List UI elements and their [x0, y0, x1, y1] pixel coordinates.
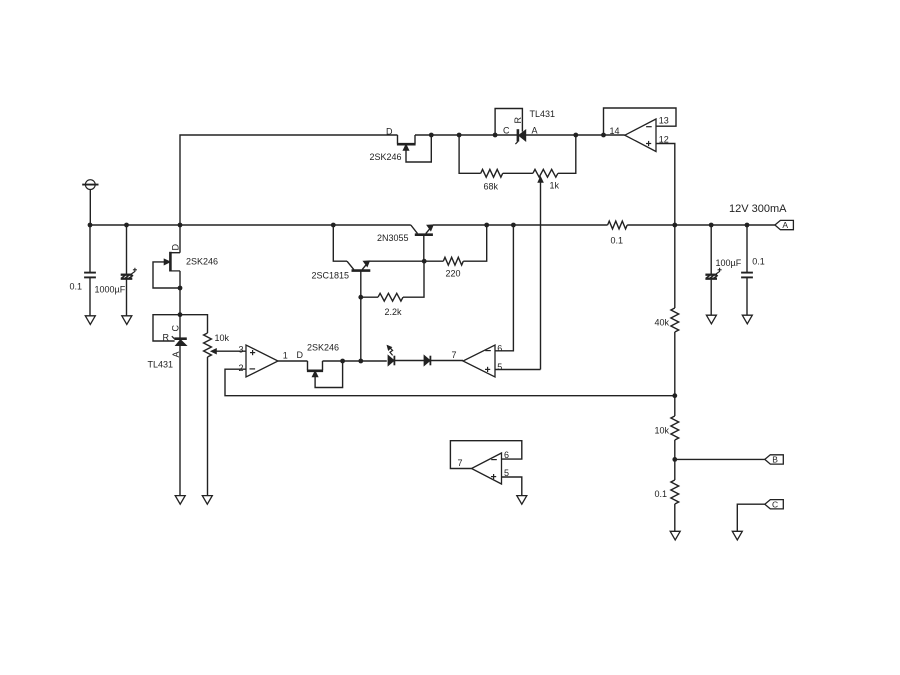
svg-text:1000µF: 1000µF	[95, 285, 126, 295]
svg-text:10k: 10k	[215, 333, 230, 343]
svg-text:7: 7	[452, 350, 457, 360]
label U1c minus	[491, 459, 497, 461]
label VR1 10k	[215, 333, 230, 343]
label U2 pin C	[170, 325, 180, 332]
wire U2 cathode	[179, 315, 181, 338]
transistor Q4 2SK246 channel bar	[307, 369, 323, 372]
label output 12V 300mA	[729, 203, 787, 215]
wire Q1 source	[170, 271, 180, 315]
label U1b pin 6	[497, 344, 502, 354]
ground U1c pin5	[517, 496, 527, 505]
svg-text:3: 3	[238, 345, 243, 355]
wire C1 bottom	[89, 277, 91, 316]
wire 40k to 10k	[674, 332, 676, 416]
wire U1b pin5 to 1k wiper	[495, 369, 541, 371]
label R 2.2k	[385, 307, 403, 317]
svg-text:2SK246: 2SK246	[370, 152, 402, 162]
wire VR1 wiper to U1a pin3	[216, 350, 247, 352]
svg-text:D: D	[171, 244, 181, 251]
node junction bus/pin6	[511, 223, 516, 228]
wire output bus right part	[627, 224, 775, 226]
wire C4 top	[746, 225, 748, 273]
svg-text:C: C	[772, 499, 778, 509]
svg-text:2SK246: 2SK246	[307, 342, 339, 352]
transistor Q4 gate arrow	[313, 371, 318, 376]
wire U1c pin6 feedback	[450, 441, 521, 469]
op-amp U1d	[625, 119, 656, 152]
led D1 indicator arrow	[387, 346, 392, 356]
op-amp U1c	[472, 453, 502, 484]
wire C3 bottom	[710, 279, 712, 316]
wire VIN to bus	[89, 190, 91, 226]
wire U1a pin2 feedback	[225, 369, 675, 396]
wire R 220 to bus	[463, 225, 486, 261]
wire C4 bottom	[746, 277, 748, 315]
resistor VR1 10k body	[204, 333, 212, 357]
svg-text:2N3055: 2N3055	[377, 233, 409, 243]
svg-text:A: A	[532, 125, 538, 135]
wire top bus segment1	[415, 134, 518, 136]
svg-text:R: R	[513, 117, 523, 124]
svg-text:2SC1815: 2SC1815	[312, 270, 350, 280]
label R 220	[446, 269, 461, 279]
wire U1c pin5 to ground	[502, 477, 522, 496]
node junction bus/40k	[672, 223, 677, 228]
svg-text:2SK246: 2SK246	[186, 256, 218, 266]
wire VR1 bottom	[207, 357, 209, 496]
label U1d pin 13	[659, 116, 669, 126]
wire B node to terminal	[675, 458, 765, 460]
svg-text:C: C	[503, 125, 510, 135]
wire Q5 gate loop	[406, 135, 431, 162]
wire C2 bottom	[126, 279, 128, 316]
label U1a pin 2	[238, 363, 243, 373]
capacitor C3 100µF	[705, 268, 721, 279]
label U2 TL431	[148, 360, 174, 370]
wire input bus	[90, 224, 411, 226]
wire R 2.2k right	[403, 261, 424, 297]
op-amp U1b	[463, 345, 495, 377]
svg-text:0.1: 0.1	[752, 257, 765, 267]
transistor Q1 gate arrow	[164, 259, 170, 264]
svg-text:100µF: 100µF	[716, 258, 742, 268]
potentiometer VR2 1k	[533, 169, 558, 177]
svg-text:7: 7	[458, 458, 463, 468]
label U1a plus	[250, 350, 255, 355]
led D1 cathode bar	[393, 356, 395, 366]
wire top rail	[180, 135, 398, 225]
label U1d pin 12	[659, 134, 669, 144]
label U1b minus	[485, 350, 491, 352]
svg-text:D: D	[297, 350, 304, 360]
label U1b pin 5	[497, 362, 502, 372]
label U3 TL431	[530, 109, 556, 119]
wire Q3 base down	[360, 271, 362, 361]
node junction Q3 base / R 2.2k	[358, 295, 363, 300]
label U1a minus	[250, 368, 256, 370]
svg-text:A: A	[782, 220, 788, 230]
node junction top/feedback	[601, 133, 606, 138]
resistor R 68k	[481, 169, 503, 177]
ground C3	[706, 315, 716, 324]
wire Q4 drain	[307, 361, 309, 370]
transistor Q3 2SC1815 collector lead	[347, 261, 354, 269]
wire U1a output	[278, 360, 308, 362]
svg-text:0.1: 0.1	[655, 489, 668, 499]
transistor Q2 2N3055 base bar	[415, 233, 433, 236]
label Q4 2SK246	[307, 342, 339, 352]
wire 0.1 to ground	[674, 504, 676, 532]
diode D2 cathode bar	[429, 356, 431, 366]
node junction ref node	[178, 312, 183, 317]
wire U1b pin6 to bus	[495, 225, 513, 351]
ground VR1	[202, 496, 212, 505]
node junction Q1 gate-source	[178, 286, 183, 291]
svg-text:TL431: TL431	[530, 109, 556, 119]
wire Q5 drain	[397, 135, 399, 144]
svg-text:220: 220	[446, 269, 461, 279]
capacitor C2 1000µF	[121, 268, 137, 279]
wire ref to pot	[180, 315, 208, 333]
svg-text:1k: 1k	[550, 181, 560, 191]
label VR2 1k	[550, 181, 560, 191]
node junction bus/220	[484, 223, 489, 228]
label U2 pin R	[163, 332, 170, 342]
transistor Q2 2N3055 collector lead	[411, 225, 418, 234]
wire D1 to D2	[394, 360, 424, 362]
label U1c plus	[491, 474, 496, 479]
ground bottom divider	[670, 531, 680, 540]
transistor Q5 2SK246 channel bar	[397, 143, 416, 146]
svg-text:D: D	[386, 126, 393, 136]
label R 10k	[655, 425, 670, 435]
label R 68k	[484, 181, 499, 191]
node junction top/1k	[573, 133, 578, 138]
capacitor C4 0.1	[741, 273, 753, 278]
svg-text:2.2k: 2.2k	[385, 307, 403, 317]
resistor R 220	[443, 257, 463, 265]
resistor R 2.2k	[378, 293, 403, 301]
wire Q5 source	[414, 135, 416, 144]
wire Q3 emitter to Q2 base node	[368, 260, 443, 262]
label U1b plus	[485, 367, 490, 372]
ground C1	[85, 316, 95, 325]
svg-text:A: A	[171, 351, 181, 357]
wire C3 top	[710, 225, 712, 275]
wire 1k right up	[558, 135, 576, 173]
wire 10k to 0.1	[674, 440, 676, 480]
wire U2 anode down	[179, 345, 181, 496]
svg-text:6: 6	[497, 344, 502, 354]
label C4 0.1	[752, 257, 765, 267]
label R 0.1 bottom	[655, 489, 668, 499]
label U1c pin 7	[458, 458, 463, 468]
resistor R 40k	[671, 308, 679, 332]
svg-text:40k: 40k	[655, 317, 670, 327]
label U1d plus	[646, 141, 651, 146]
capacitor C1 0.1	[84, 273, 96, 278]
node junction feedback node	[672, 393, 677, 398]
node junction Q2 base node	[422, 259, 427, 264]
svg-text:14: 14	[610, 126, 620, 136]
svg-text:TL431: TL431	[148, 360, 174, 370]
node junction top/68k	[457, 133, 462, 138]
label Q4 pin D	[297, 350, 304, 360]
terminal B	[765, 455, 784, 465]
transistor Q2 2N3055 emitter lead	[426, 225, 433, 234]
node junction top/U3 cathode	[493, 133, 498, 138]
wire Q2 base	[423, 235, 425, 262]
label C2 1000µF	[95, 285, 126, 295]
wire output bus left part	[433, 224, 607, 226]
wire Q1 gate loop	[153, 262, 180, 288]
resistor R 0.1 series	[608, 221, 628, 229]
wire U1d pin13 feedback	[604, 108, 677, 135]
led D1 triangle	[388, 356, 394, 366]
wire 68k to 1k	[503, 172, 533, 174]
label U1d minus	[646, 126, 652, 128]
wire D2 to U1b	[430, 360, 463, 362]
node junction input-Q3c	[331, 223, 336, 228]
svg-text:10k: 10k	[655, 425, 670, 435]
wire 68k branch	[459, 135, 481, 173]
label U1d pin 14	[610, 126, 620, 136]
label Q1 pin D	[171, 244, 181, 251]
resistor R 0.1 bottom	[671, 480, 679, 504]
op-amp U1a	[246, 345, 278, 377]
wire VR2 wiper down to pin5	[540, 182, 542, 370]
label Q5 pin D	[386, 126, 393, 136]
label U1c pin 5	[504, 468, 509, 478]
ground C4	[742, 315, 752, 324]
svg-text:5: 5	[497, 362, 502, 372]
svg-text:1: 1	[283, 350, 288, 360]
svg-text:B: B	[772, 455, 778, 465]
wire Q1 drain	[170, 225, 180, 253]
svg-text:2: 2	[238, 363, 243, 373]
node junction Q5 gate-source	[429, 133, 434, 138]
wire U1d pin12 down	[656, 144, 675, 226]
label U3 pin C	[503, 125, 510, 135]
node junction Q4 gate-source	[340, 359, 345, 364]
wire U3 reference loop	[495, 109, 522, 136]
label U2 pin A	[171, 351, 181, 357]
svg-text:0.1: 0.1	[70, 282, 83, 292]
wire bus to 40k	[674, 225, 676, 308]
wire terminal C to ground	[737, 504, 765, 531]
wire Q3 collector branch	[333, 225, 347, 261]
wiper VR1 arrow	[211, 349, 216, 354]
label U3 pin A	[532, 125, 538, 135]
svg-text:R: R	[163, 332, 170, 342]
terminal A	[775, 220, 794, 230]
svg-text:68k: 68k	[484, 181, 499, 191]
transistor Q3 2SC1815 emitter lead	[362, 261, 369, 270]
node junction input-C1	[88, 223, 93, 228]
transistor Q5 gate arrow	[403, 145, 408, 150]
transistor Q1 2SK246 channel bar	[169, 252, 172, 272]
label Q3 2SC1815	[312, 270, 350, 280]
svg-text:0.1: 0.1	[611, 236, 624, 246]
label U1c pin 6	[504, 450, 509, 460]
shunt-reference U3 TL431 cathode bar	[515, 129, 518, 144]
terminal C	[765, 499, 784, 509]
ground terminal C	[732, 531, 742, 540]
wire Q4 gate loop	[315, 361, 343, 388]
label Q5 2SK246	[370, 152, 402, 162]
label R 40k	[655, 317, 670, 327]
node junction Q3 base / diode row	[358, 359, 363, 364]
shunt-reference U3 TL431 anode triangle	[519, 130, 526, 141]
svg-text:12V 300mA: 12V 300mA	[729, 203, 787, 215]
wire U3 anode to opamp	[526, 134, 625, 136]
label Q1 2SK246	[186, 256, 218, 266]
shunt-reference U2 TL431 cathode bar	[172, 336, 187, 339]
wire C1 top	[89, 225, 91, 273]
wire R 2.2k left	[361, 296, 378, 298]
label C3 100µF	[716, 258, 742, 268]
svg-text:C: C	[170, 325, 180, 332]
label Q2 2N3055	[377, 233, 409, 243]
node junction input-C2	[124, 223, 129, 228]
ground U2 anode	[175, 496, 185, 505]
node junction bus/C3	[709, 223, 714, 228]
wire ref to R pin	[153, 315, 180, 341]
label C1 0.1	[70, 282, 83, 292]
diode D2 triangle	[424, 356, 430, 366]
transistor Q3 2SC1815 base bar	[352, 269, 371, 272]
resistor R 10k	[671, 416, 679, 440]
ground C2	[122, 316, 132, 325]
wiper VR2 arrow	[538, 177, 543, 182]
node junction input-Q1	[178, 223, 183, 228]
label R 0.1 series	[611, 236, 624, 246]
label U3 pin R	[513, 117, 523, 124]
wire C2 top	[126, 225, 128, 275]
node junction bus/C4	[745, 223, 750, 228]
label U1a pin 1	[283, 350, 288, 360]
svg-text:13: 13	[659, 116, 669, 126]
shunt-reference U2 TL431 anode triangle	[176, 340, 186, 346]
label U1a pin 3	[238, 345, 243, 355]
label U1b pin 7	[452, 350, 457, 360]
node VIN input terminal	[82, 180, 98, 190]
wire Q4 source	[323, 361, 387, 370]
node junction B node	[672, 457, 677, 462]
